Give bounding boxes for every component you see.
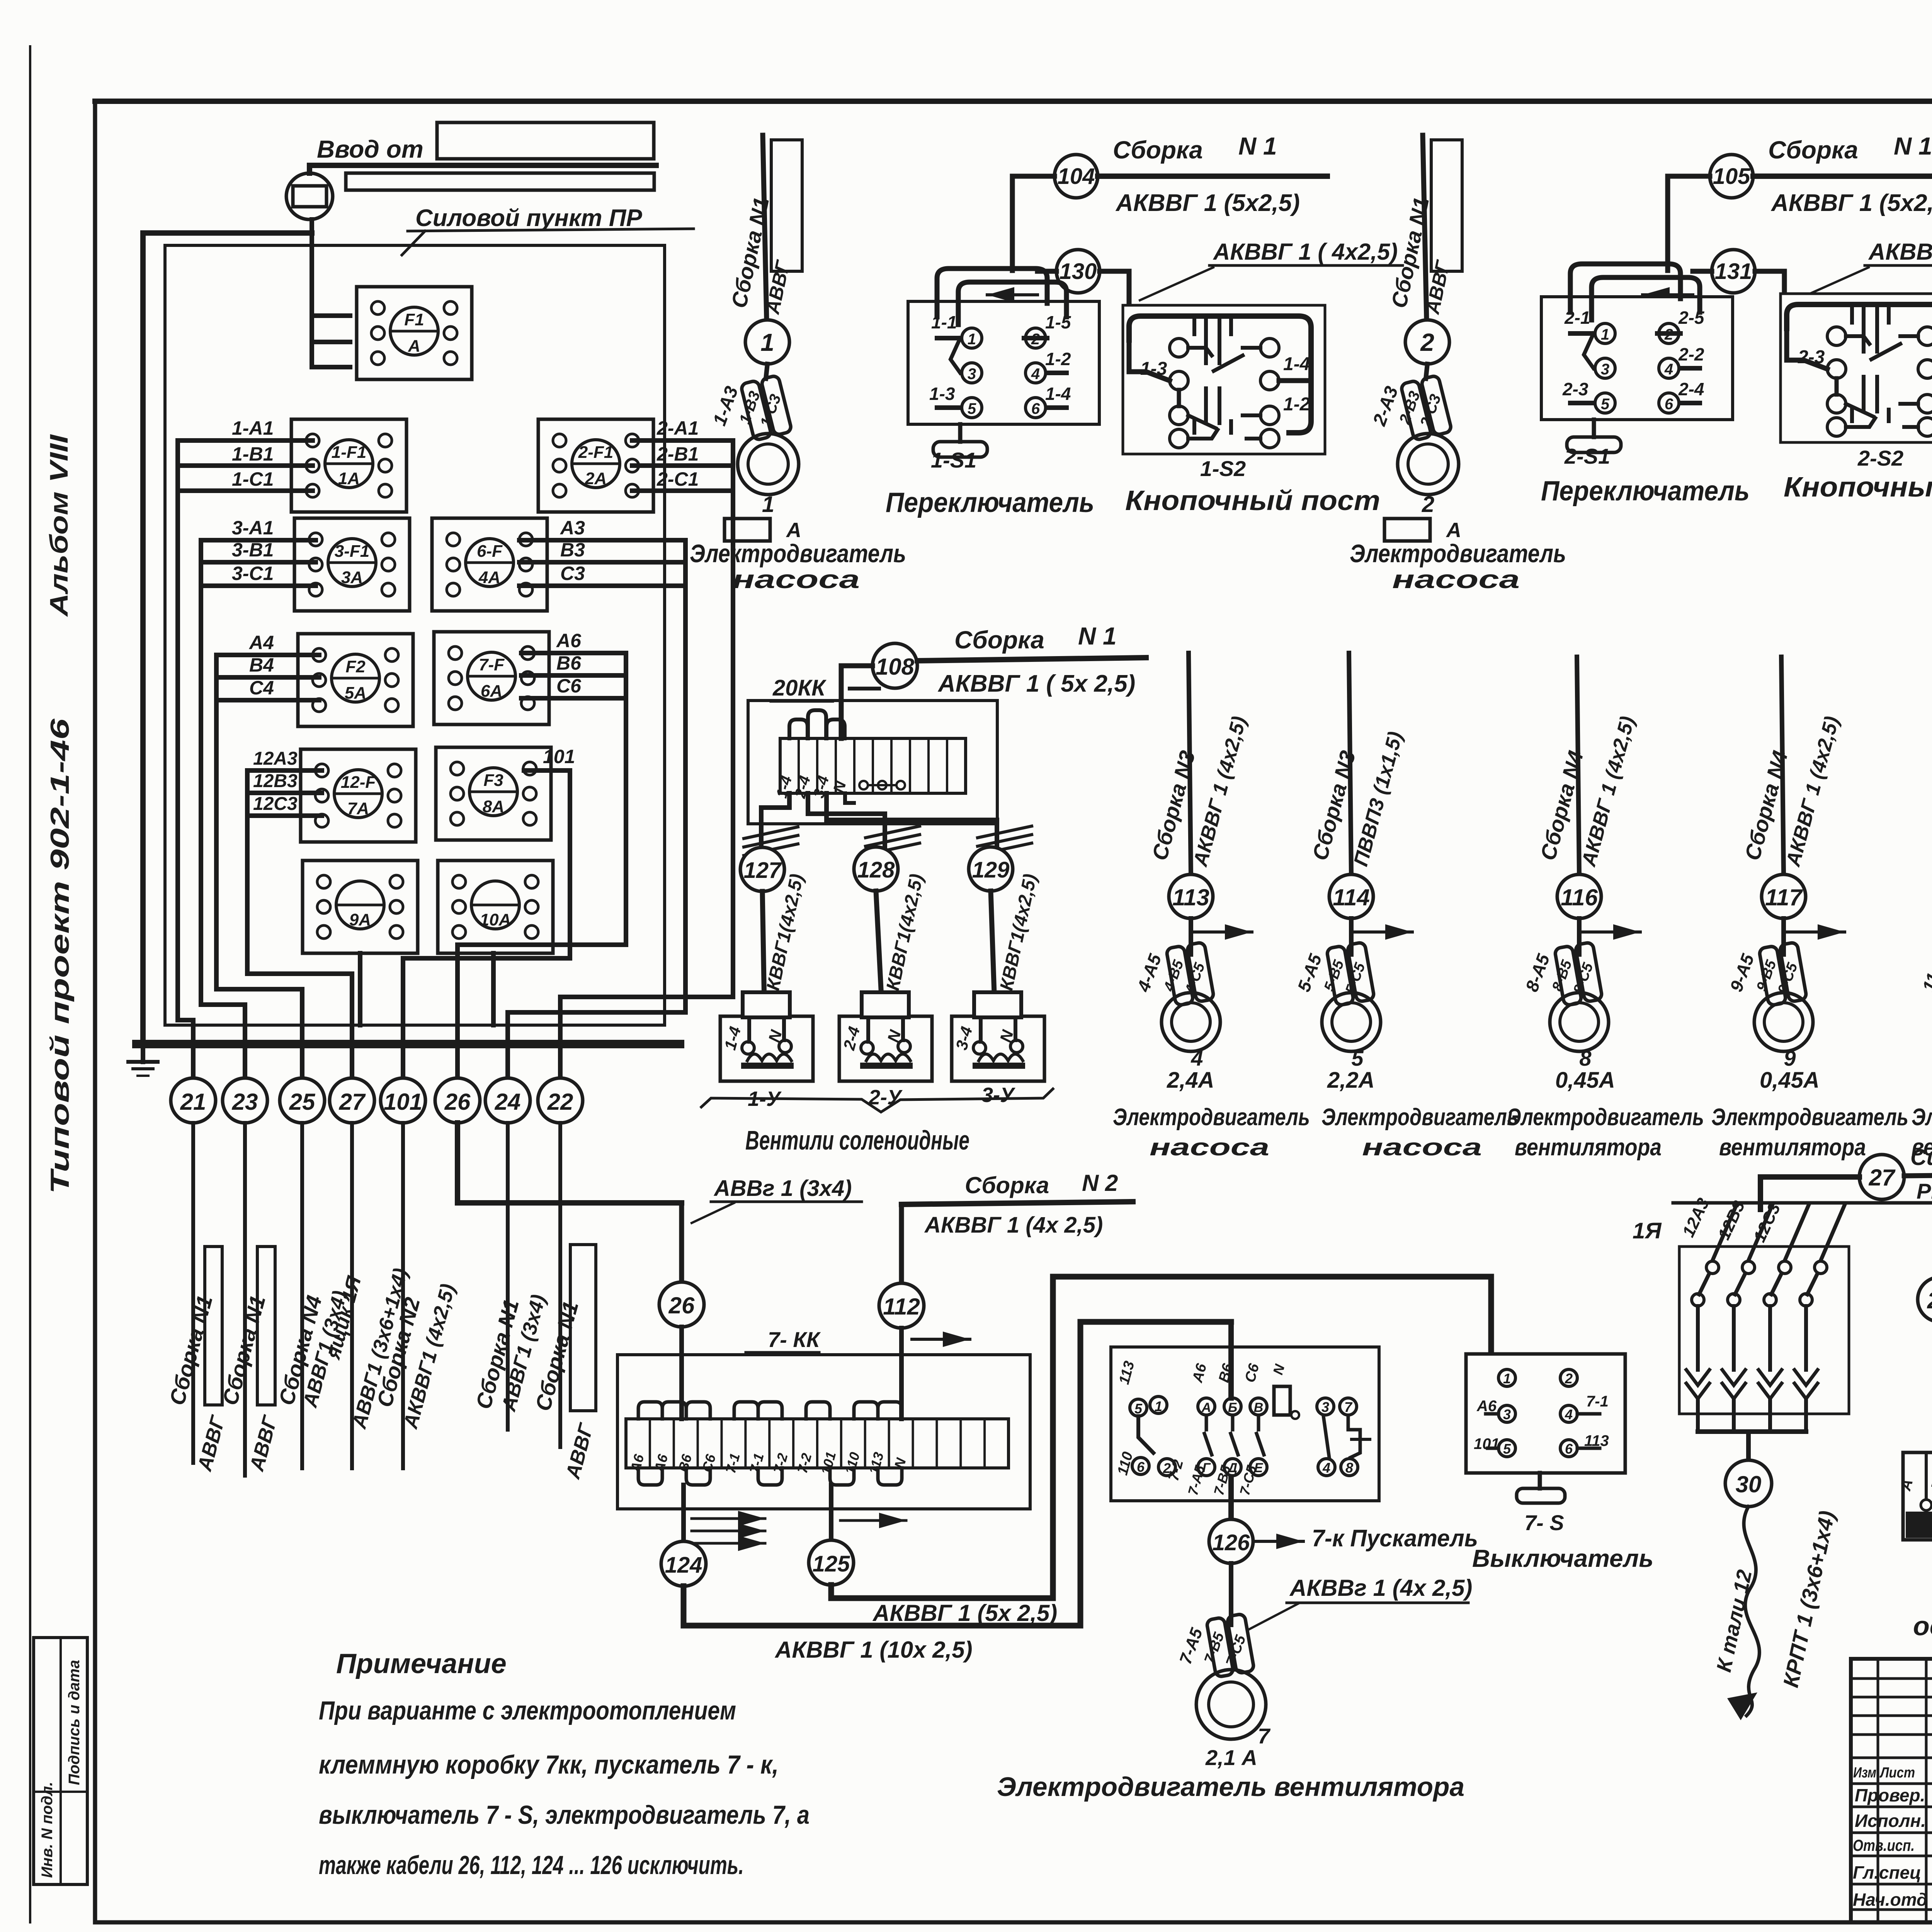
svg-text:А: А bbox=[1446, 519, 1461, 542]
svg-text:АКВВГ 1 ( 5х 2,5): АКВВГ 1 ( 5х 2,5) bbox=[937, 670, 1135, 697]
label current 0,45А bbox=[1760, 1068, 1820, 1093]
svg-text:АВВг 1 (3х4): АВВг 1 (3х4) bbox=[713, 1176, 852, 1201]
svg-text:АКВВГ 1 (5х2,5): АКВВГ 1 (5х2,5) bbox=[1115, 190, 1300, 216]
wires А6 В6 С6 bbox=[521, 653, 626, 698]
svg-text:27: 27 bbox=[339, 1089, 366, 1115]
svg-text:Сборка: Сборка bbox=[965, 1172, 1049, 1198]
label motor number 9 bbox=[1784, 1046, 1796, 1070]
terminal strip symbol cable 22 bbox=[570, 1245, 596, 1411]
label 1Я bbox=[1633, 1218, 1662, 1243]
svg-text:2-2: 2-2 bbox=[1678, 344, 1704, 364]
wire Сборка N2 feeder 112 bbox=[901, 1202, 1133, 1204]
label Сборка N3 cable 4 bbox=[1147, 748, 1200, 863]
svg-text:Нач.отд: Нач.отд bbox=[1853, 1889, 1927, 1910]
motor frame symbol 1 bbox=[724, 519, 801, 542]
caption освещения bbox=[1913, 1611, 1932, 1641]
solenoid valve 2-У bbox=[839, 992, 932, 1081]
connector 1-А3 В3 С3 bbox=[740, 375, 792, 441]
cable mark 125 bbox=[809, 1540, 854, 1585]
svg-text:5: 5 bbox=[1601, 396, 1610, 413]
svg-text:А: А bbox=[408, 337, 420, 355]
connector 9-А5 В5 С5 bbox=[1759, 942, 1807, 1006]
svg-text:N 1: N 1 bbox=[1238, 132, 1277, 160]
svg-text:7- S: 7- S bbox=[1524, 1510, 1564, 1535]
label motor number 2 bbox=[1422, 492, 1434, 517]
label current 2,1А bbox=[1205, 1745, 1257, 1770]
svg-text:2,4А: 2,4А bbox=[1167, 1068, 1214, 1093]
fuse block F1 A bbox=[357, 287, 472, 379]
wire 114 to motor 5 bbox=[1349, 918, 1354, 954]
svg-text:РВВГ 1 (3х6 ·1х4 ): РВВГ 1 (3х6 ·1х4 ) bbox=[1917, 1179, 1932, 1203]
motor 7 bbox=[1196, 1670, 1266, 1739]
label 5-С5 bbox=[1342, 961, 1369, 997]
wire 108 drop to 20КК bbox=[841, 666, 879, 738]
wire 131 to button post bbox=[1693, 271, 1784, 307]
label К тали 12 bbox=[1712, 1568, 1757, 1674]
cable feeder 8 bbox=[1577, 657, 1579, 874]
label 7-В5 bbox=[1201, 1630, 1228, 1666]
svg-text:выключатель 7 - S, электродви: выключатель 7 - S, электродвигатель 7, а bbox=[319, 1800, 810, 1830]
svg-text:129: 129 bbox=[972, 857, 1010, 883]
label 7-А5 bbox=[1176, 1626, 1206, 1667]
wire cable 27 drop bbox=[350, 1123, 354, 1468]
label 2-S2 bbox=[1857, 446, 1903, 470]
wire stub 10А block bbox=[491, 953, 496, 1025]
svg-text:1Я: 1Я bbox=[1633, 1218, 1662, 1243]
wire nest to circle 22 bbox=[560, 440, 733, 1078]
wire 7-КК to 124 bbox=[681, 1485, 686, 1541]
caption Электродвигатель 2 bbox=[1350, 539, 1566, 568]
cable mark 23 bbox=[223, 1078, 267, 1123]
arrows at 124 bbox=[692, 1511, 765, 1551]
svg-text:Лист: Лист bbox=[1879, 1765, 1915, 1781]
label 1-А3 bbox=[709, 384, 742, 429]
arrow at 114 bbox=[1354, 924, 1412, 940]
wire cable 25 drop bbox=[300, 1123, 304, 1468]
switch 2-S1 stand bbox=[1567, 420, 1621, 452]
svg-text:1-S1: 1-S1 bbox=[931, 448, 976, 472]
wire 7-КК to 125 bbox=[829, 1485, 833, 1540]
svg-text:Г: Г bbox=[1202, 1461, 1211, 1475]
connector 8-А5 В5 С5 bbox=[1554, 942, 1603, 1006]
label motor number 1 bbox=[762, 492, 774, 517]
svg-text:2-4: 2-4 bbox=[1678, 379, 1704, 399]
wire drop to switch 104 bbox=[1012, 176, 1054, 270]
svg-text:12С3: 12С3 bbox=[253, 794, 298, 814]
label 12А3 bbox=[1679, 1195, 1713, 1240]
svg-text:Выключатель: Выключатель bbox=[1472, 1544, 1653, 1572]
wire nest to circle 27 bbox=[247, 770, 352, 1078]
label АКВВГ1(4х2,5) 129 bbox=[993, 872, 1041, 1006]
svg-text:4: 4 bbox=[1664, 361, 1673, 378]
margin text Альбом VIII bbox=[44, 434, 73, 617]
wire 117 to motor 9 bbox=[1781, 918, 1786, 954]
jumper staples above 20КК strip bbox=[789, 710, 845, 738]
svg-text:1-4: 1-4 bbox=[1283, 354, 1310, 374]
label АВВГ cable 23 bbox=[245, 1413, 282, 1474]
cable feeder 5 bbox=[1349, 653, 1351, 874]
svg-text:Электродвигатель: Электродвигатель bbox=[1507, 1104, 1704, 1131]
caption Кнопочный пост group2 bbox=[1784, 472, 1932, 503]
motor 8 bbox=[1550, 993, 1609, 1051]
svg-text:N 1: N 1 bbox=[1078, 622, 1117, 650]
svg-text:Провер.: Провер. bbox=[1855, 1785, 1925, 1805]
svg-text:1: 1 bbox=[1601, 326, 1609, 343]
svg-text:4: 4 bbox=[1322, 1460, 1330, 1476]
label 2-В3 bbox=[1396, 389, 1423, 427]
wire bus 1Я bottom bbox=[1698, 1429, 1806, 1434]
svg-text:6: 6 bbox=[1137, 1459, 1145, 1475]
caption Электродвигатель motor 4 bbox=[1113, 1104, 1310, 1131]
svg-text:7-F: 7-F bbox=[479, 655, 505, 674]
connector 2-А3 В3 С3 bbox=[1400, 375, 1452, 441]
svg-text:27: 27 bbox=[1869, 1165, 1896, 1190]
wire cable 22 drop bbox=[558, 1123, 562, 1447]
svg-text:2-А1: 2-А1 bbox=[656, 417, 699, 439]
svg-text:Силовой пункт ПР: Силовой пункт ПР bbox=[415, 205, 642, 231]
label 4-В5 bbox=[1161, 958, 1187, 994]
svg-text:2: 2 bbox=[1565, 1371, 1573, 1386]
label АКВВГ1(4х2,5) 112 bbox=[924, 1213, 1103, 1238]
solenoid valve 1-У bbox=[720, 992, 813, 1081]
svg-text:насоса: насоса bbox=[1392, 565, 1520, 594]
ground bus PE bbox=[136, 1040, 680, 1048]
wire 1 to motor bbox=[766, 364, 767, 379]
switch 2-S1 box bbox=[1541, 264, 1733, 420]
label КРПТ1(3х6+1х4) bbox=[1778, 1509, 1839, 1689]
label 2-S1 bbox=[1564, 444, 1610, 468]
svg-text:116: 116 bbox=[1561, 884, 1598, 910]
label РВВГ1(3х6·1х4) bbox=[1917, 1179, 1932, 1203]
wire Сборка N1 feeder 105 bbox=[1753, 173, 1932, 179]
label 2-А3 bbox=[1369, 384, 1402, 429]
svg-text:Отв.исп.: Отв.исп. bbox=[1853, 1836, 1915, 1854]
terminal strip rectangle top bbox=[437, 122, 654, 159]
svg-text:А4: А4 bbox=[248, 632, 274, 653]
svg-text:Электродвигатель: Электродвигатель bbox=[1912, 1104, 1932, 1131]
wires А4 В4 С4 bbox=[216, 655, 319, 700]
svg-text:клеммную коробку 7кк, пускате: клеммную коробку 7кк, пускатель 7 - к, bbox=[319, 1750, 779, 1779]
svg-text:4А: 4А bbox=[478, 568, 500, 587]
caption Электродвигатель вентилятора bbox=[997, 1772, 1464, 1802]
label current 2,4А bbox=[1167, 1068, 1214, 1093]
switch 7-S stand bbox=[1517, 1473, 1565, 1503]
wire 116 to motor 8 bbox=[1577, 918, 1582, 954]
wire 126 to motor 7 bbox=[1229, 1563, 1233, 1625]
svg-text:2,2А: 2,2А bbox=[1327, 1068, 1375, 1093]
label Ввод от bbox=[317, 135, 423, 163]
svg-text:А3: А3 bbox=[560, 517, 585, 539]
svg-text:2,1 А: 2,1 А bbox=[1205, 1745, 1257, 1770]
wire nest to circle 24 bbox=[508, 540, 685, 1078]
svg-text:3: 3 bbox=[1503, 1406, 1511, 1422]
svg-text:F1: F1 bbox=[404, 310, 424, 329]
connector 7-А5 В5 С5 bbox=[1206, 1614, 1255, 1677]
label 3-У bbox=[981, 1083, 1015, 1107]
svg-text:Примечание: Примечание bbox=[336, 1648, 507, 1679]
cable mark 126 bbox=[1209, 1519, 1253, 1563]
svg-text:9: 9 bbox=[1784, 1046, 1796, 1070]
arrow at 126 bbox=[1255, 1534, 1303, 1549]
label АВВГ1(3х6+1х4) cable 27 bbox=[348, 1266, 412, 1432]
svg-text:6: 6 bbox=[1665, 396, 1673, 413]
label 12В3 bbox=[1714, 1198, 1749, 1243]
caption Электродвигатель 1 bbox=[690, 539, 906, 568]
svg-text:С6: С6 bbox=[556, 675, 582, 697]
label 8-В5 bbox=[1549, 958, 1575, 994]
wire 130 to button post bbox=[1037, 271, 1129, 307]
svg-text:3: 3 bbox=[1321, 1399, 1329, 1415]
terminal strip 20КК bbox=[773, 738, 966, 800]
svg-text:2-3: 2-3 bbox=[1562, 379, 1588, 399]
cable feeder 9 bbox=[1781, 657, 1784, 874]
wire cable 26 route to 7-КК bbox=[457, 1123, 682, 1203]
label АКВВГ1(4х2,5) at 126 bbox=[1248, 1575, 1472, 1630]
svg-text:Б: Б bbox=[1228, 1400, 1237, 1415]
terminal strip 7-КК bbox=[626, 1419, 1009, 1476]
svg-text:22: 22 bbox=[547, 1089, 573, 1115]
wire cable 125 route АКВВГ1(5х2,5) bbox=[831, 1277, 1491, 1598]
label Сборка N1 2 bbox=[1386, 195, 1434, 310]
shield marks cable 129 bbox=[978, 826, 1032, 855]
svg-text:С4: С4 bbox=[249, 677, 274, 699]
wire 101 tap bbox=[524, 768, 570, 773]
label 12С3 bbox=[1750, 1200, 1784, 1245]
wire cable 124 route АКВВГ1(10х2,5) bbox=[684, 1322, 1231, 1626]
motor frame symbol 2 bbox=[1384, 519, 1461, 542]
fuse block 3-F1 3А bbox=[294, 518, 410, 611]
arrow at 112 bbox=[912, 1332, 970, 1347]
cable mark 131 bbox=[1712, 250, 1755, 293]
caption насоса 1 bbox=[732, 565, 860, 594]
note line 1 bbox=[319, 1696, 736, 1725]
svg-text:вентилятора: вентилятора bbox=[1719, 1134, 1866, 1161]
fuse box 1Я bbox=[1679, 1247, 1849, 1414]
arrow at 116 bbox=[1582, 924, 1640, 940]
svg-text:1: 1 bbox=[1503, 1371, 1511, 1386]
caption Выключатель bbox=[1472, 1544, 1653, 1572]
svg-text:6: 6 bbox=[1031, 400, 1040, 417]
svg-text:А6: А6 bbox=[556, 630, 582, 651]
svg-text:1А: 1А bbox=[338, 469, 360, 488]
terminal strip rectangle lower bbox=[346, 173, 654, 190]
svg-text:26: 26 bbox=[444, 1089, 471, 1115]
title row Исполн Педан bbox=[1855, 1810, 1932, 1832]
terminal box 20КК bbox=[748, 701, 997, 824]
label Силовой пункт ПР bbox=[402, 205, 694, 255]
label АВВГ cable 22 bbox=[561, 1420, 598, 1482]
cable mark 129 bbox=[969, 847, 1013, 891]
wire cable 21 drop bbox=[191, 1123, 195, 1463]
motor 1 bbox=[738, 434, 799, 495]
svg-text:3-F1: 3-F1 bbox=[335, 542, 369, 561]
svg-text:F2: F2 bbox=[345, 657, 366, 676]
label 1-В3 bbox=[736, 389, 764, 427]
svg-text:117: 117 bbox=[1765, 884, 1803, 910]
svg-text:0,45А: 0,45А bbox=[1760, 1068, 1820, 1093]
svg-text:1-В1: 1-В1 bbox=[232, 443, 274, 465]
label 7-С5 bbox=[1223, 1633, 1249, 1669]
caption насоса 2 bbox=[1392, 565, 1520, 594]
cable mark 112 bbox=[879, 1204, 924, 1328]
label Сборка N2 cable 101 bbox=[372, 1295, 425, 1410]
label ПВВП3 (1х1,5) cable 5 bbox=[1350, 729, 1407, 869]
magnetic starter 7-К box bbox=[1111, 1347, 1379, 1501]
label 8-С5 bbox=[1570, 961, 1597, 997]
svg-text:127: 127 bbox=[744, 858, 782, 883]
label Сборка N1 cable 23 bbox=[218, 1293, 270, 1408]
cable mark 2 bbox=[1405, 320, 1449, 364]
svg-text:126: 126 bbox=[1213, 1530, 1250, 1555]
wire meter drop bbox=[310, 219, 314, 367]
svg-text:2-S2: 2-S2 bbox=[1857, 446, 1903, 470]
label 11-А5 bbox=[1918, 943, 1932, 995]
wire Сборка N1 feeder 104 bbox=[1098, 173, 1327, 179]
shield marks cable 128 bbox=[866, 826, 920, 855]
motor 4 bbox=[1162, 993, 1220, 1051]
svg-text:АКВВГ 1 ( 4х2,5): АКВВГ 1 ( 4х2,5) bbox=[1868, 239, 1932, 265]
title row Отв.исп Пономарева bbox=[1853, 1836, 1932, 1855]
label Сборка N4 cable 25 bbox=[274, 1293, 327, 1408]
svg-text:Инв. N подл.: Инв. N подл. bbox=[39, 1782, 56, 1878]
svg-text:А: А bbox=[786, 519, 801, 542]
wire 127 to valve 1-У bbox=[762, 891, 764, 1004]
wire 112 into 7-КК bbox=[899, 1328, 904, 1419]
wire cable 23 drop bbox=[243, 1123, 247, 1476]
svg-text:3-У: 3-У bbox=[981, 1083, 1015, 1107]
solenoid valve 3-У bbox=[952, 992, 1044, 1081]
label АВВг1(3х4) at 26 bbox=[692, 1176, 862, 1223]
wires 2-А1 2-В1 2-С1 bbox=[632, 440, 733, 491]
sheet binding edge line bbox=[29, 46, 31, 1922]
svg-text:1-3: 1-3 bbox=[929, 384, 955, 404]
svg-text:F3: F3 bbox=[483, 771, 503, 790]
svg-text:5А: 5А bbox=[345, 684, 366, 702]
switch columns 1Я bbox=[1686, 1205, 1845, 1432]
jumper staples below 7-КК strip bbox=[638, 1468, 902, 1485]
wire nest to circle 25 bbox=[216, 655, 302, 1078]
svg-text:2-В1: 2-В1 bbox=[656, 443, 699, 465]
svg-text:5: 5 bbox=[968, 400, 976, 417]
label Сборка N1 cable 24 bbox=[471, 1297, 524, 1412]
cable mark 21 bbox=[171, 1078, 216, 1123]
fuse block 12-F 7А bbox=[301, 749, 416, 842]
svg-text:1-5: 1-5 bbox=[1045, 312, 1071, 332]
label АВВГ cable 21 bbox=[193, 1413, 230, 1474]
caption вентилятора motor 11 bbox=[1912, 1134, 1932, 1161]
svg-text:0,45А: 0,45А bbox=[1555, 1068, 1615, 1093]
arrow crane cable end bbox=[1727, 1692, 1757, 1720]
svg-text:6А: 6А bbox=[481, 682, 502, 701]
cable mark 24 bbox=[485, 1078, 530, 1123]
label АКВВГ1(4х2,5) 131 bbox=[1795, 239, 1932, 300]
note title Примечание bbox=[336, 1648, 507, 1679]
labels А4 В4 С4 bbox=[248, 632, 274, 699]
switch 1-S1 stand bbox=[933, 424, 987, 457]
caption насоса motor 5 bbox=[1362, 1134, 1482, 1161]
svg-text:Кнопочный пост: Кнопочный пост bbox=[1125, 485, 1380, 516]
label motor number 8 bbox=[1579, 1046, 1592, 1070]
svg-text:10А: 10А bbox=[480, 910, 511, 929]
svg-text:4: 4 bbox=[1190, 1046, 1203, 1070]
svg-text:вентилятора: вентилятора bbox=[1515, 1134, 1662, 1161]
svg-text:Электродвигатель: Электродвигатель bbox=[1711, 1104, 1908, 1131]
label current 2,2А bbox=[1327, 1068, 1375, 1093]
svg-text:5: 5 bbox=[1503, 1441, 1511, 1457]
svg-text:А6: А6 bbox=[1476, 1398, 1497, 1415]
cable mark 104 bbox=[1054, 155, 1098, 198]
svg-text:8А: 8А bbox=[483, 797, 504, 816]
wires F1 input taps bbox=[312, 316, 350, 367]
title row Гл.спец Казаров bbox=[1853, 1861, 1932, 1883]
svg-text:125: 125 bbox=[813, 1551, 850, 1577]
svg-text:113: 113 bbox=[1172, 884, 1209, 910]
label АКВВГ 1 (4х2,5) cable 9 bbox=[1782, 714, 1844, 869]
wire 26 into 7-КК bbox=[679, 1327, 684, 1419]
caption Вентили соленоидные bbox=[745, 1125, 969, 1155]
label current 0,45А bbox=[1555, 1068, 1615, 1093]
svg-text:Сборка: Сборка bbox=[1768, 136, 1858, 164]
shield marks cable 127 bbox=[744, 827, 798, 855]
svg-text:2-С1: 2-С1 bbox=[656, 468, 699, 490]
wires 3-А1 3-В1 3-С1 bbox=[201, 540, 316, 586]
svg-text:1-С1: 1-С1 bbox=[232, 468, 274, 490]
caption Переключатель group1 bbox=[886, 487, 1094, 518]
connector 5-А5 В5 С5 bbox=[1327, 942, 1375, 1006]
label 20КК bbox=[771, 675, 833, 701]
group bracket solenoid valves bbox=[701, 1089, 1053, 1112]
svg-text:130: 130 bbox=[1060, 259, 1097, 284]
caption Электродвигатель motor 9 bbox=[1711, 1104, 1908, 1131]
wire starter feed internal bbox=[1228, 1322, 1234, 1519]
caption Электродвигатель motor 5 bbox=[1321, 1104, 1519, 1131]
label АКВВГ1(5х2,5) bbox=[872, 1600, 1057, 1626]
svg-text:1-2: 1-2 bbox=[1045, 349, 1071, 369]
label 1-У bbox=[748, 1087, 782, 1111]
caption Электродвигатель motor 8 bbox=[1507, 1104, 1704, 1131]
label АКВВГ1(4х2,5) 128 bbox=[880, 872, 927, 1006]
labels 2-А1 2-В1 2-С1 bbox=[656, 417, 699, 490]
svg-text:8: 8 bbox=[1345, 1460, 1353, 1476]
svg-text:1: 1 bbox=[760, 328, 774, 356]
svg-text:1: 1 bbox=[762, 492, 774, 517]
arrow at 125 bbox=[840, 1513, 906, 1528]
wires А3 В3 С3 bbox=[519, 540, 685, 586]
wire nest to circle 21 bbox=[178, 440, 193, 1078]
svg-text:124: 124 bbox=[665, 1553, 702, 1578]
svg-text:Подпись и дата: Подпись и дата bbox=[66, 1660, 83, 1785]
cable Сборка feeder 1 bbox=[763, 135, 767, 320]
switch 7-S box bbox=[1466, 1354, 1625, 1473]
svg-text:В6: В6 bbox=[556, 652, 582, 674]
svg-text:Электродвигатель: Электродвигатель bbox=[1113, 1104, 1310, 1131]
terminal strip symbol cable 21 bbox=[205, 1247, 222, 1405]
svg-text:101: 101 bbox=[384, 1089, 422, 1115]
title row Провер Мизяк bbox=[1855, 1785, 1932, 1807]
svg-text:2А: 2А bbox=[585, 469, 607, 488]
svg-text:2: 2 bbox=[1420, 328, 1434, 356]
label 7-КК bbox=[746, 1327, 821, 1352]
svg-text:N 1: N 1 bbox=[1894, 132, 1932, 160]
label Сборка N1 105 bbox=[1768, 132, 1932, 164]
terminal strip rect 1 bbox=[771, 140, 802, 271]
note line 4 bbox=[319, 1850, 744, 1880]
svg-text:25: 25 bbox=[289, 1089, 316, 1115]
title row Нач.отд Фролов bbox=[1853, 1888, 1932, 1910]
svg-text:Электродвигатель: Электродвигатель bbox=[1321, 1104, 1519, 1131]
switch 7-S pins bbox=[1474, 1369, 1609, 1457]
motor 2 bbox=[1398, 434, 1459, 495]
